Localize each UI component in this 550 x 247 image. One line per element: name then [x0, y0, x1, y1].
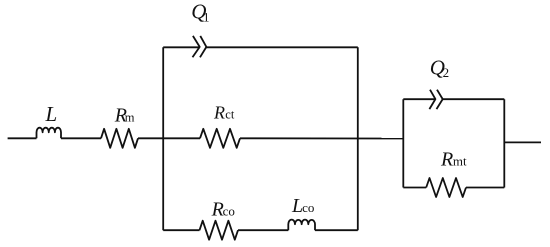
- box2 top edge left wire: [403, 98, 435, 100]
- svg-text:Q1: Q1: [191, 0, 209, 24]
- box1 left edge wire: [162, 47, 164, 230]
- inductor Lco: [288, 220, 315, 231]
- wire Lco to box1 right edge: [315, 229, 358, 231]
- CPE Q2 chevron 2: [437, 90, 443, 109]
- wire Rm to Rct through box1 left edge: [138, 137, 200, 139]
- inductor L: [37, 128, 62, 139]
- svg-text:Rct: Rct: [213, 103, 235, 123]
- CPE Q1 chevron 2: [200, 36, 206, 57]
- box2 top edge right wire: [443, 98, 505, 100]
- svg-text:L: L: [45, 102, 58, 126]
- wire right lead: [504, 141, 541, 143]
- resistor R1 Rm: [101, 129, 138, 148]
- box1 top edge left wire: [163, 46, 200, 48]
- resistor R2 Rct: [200, 129, 240, 148]
- box2 left edge wire: [402, 99, 404, 187]
- CPE Q2 chevron 1: [429, 90, 435, 109]
- box1 right edge wire: [357, 47, 359, 230]
- svg-text:Lco: Lco: [291, 195, 314, 217]
- wire left lead: [8, 137, 37, 139]
- resistor R4 Rmt: [426, 178, 466, 197]
- svg-text:Q2: Q2: [430, 55, 449, 80]
- box1 bottom edge left wire: [163, 229, 199, 231]
- wire Rco to Lco: [238, 229, 288, 231]
- box2 right edge wire: [503, 99, 505, 187]
- svg-text:Rco: Rco: [211, 199, 235, 221]
- resistor R3 Rco: [200, 221, 239, 240]
- box2 bottom edge left wire: [403, 187, 426, 189]
- svg-text:Rm: Rm: [114, 105, 135, 127]
- svg-text:Rmt: Rmt: [440, 148, 467, 170]
- wire L to Rm: [61, 137, 101, 139]
- wire Rmt to box2 right edge: [466, 187, 504, 189]
- CPE Q1 chevron 1: [193, 36, 200, 57]
- wire Rct to box2 left edge: [240, 137, 403, 139]
- box1 top edge right wire: [206, 46, 357, 48]
